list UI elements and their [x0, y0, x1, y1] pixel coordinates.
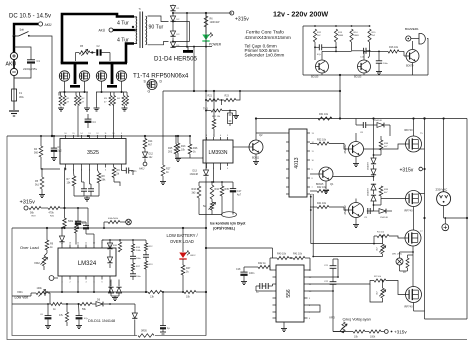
svg-text:R42 10k: R42 10k: [317, 186, 327, 189]
resistor R43: [406, 258, 409, 268]
wire LED to y292: [182, 275, 184, 292]
svg-text:470k: 470k: [49, 212, 55, 215]
capacitor C9: [367, 208, 369, 214]
wire bridge column: [172, 12, 174, 16]
wires below LM393: [206, 166, 208, 168]
wire multivib feed down: [339, 74, 341, 76]
transistor Q5 BD139 buzzer driver: [406, 50, 419, 63]
fuse F1: [12, 89, 17, 101]
diode D1 HER505: [170, 6, 175, 11]
resistor R28 56k: [97, 173, 101, 183]
svg-text:+315v: +315v: [20, 200, 36, 206]
svg-text:D1-D4 HER505: D1-D4 HER505: [154, 56, 198, 63]
resistor R36 4k7: [143, 139, 147, 149]
wire driver column joins: [374, 154, 382, 156]
svg-text:BD135: BD135: [354, 76, 362, 79]
switch S1: [14, 35, 19, 37]
resistor R13 680R: [334, 29, 337, 42]
diode D13 optional (inline): [203, 170, 208, 175]
svg-text:Q2: Q2: [259, 133, 263, 137]
resistor R42 10k: [317, 189, 329, 192]
wire Q2 emitter: [255, 154, 257, 160]
capacitor C29 47u: [76, 315, 83, 317]
wire bridge negative rail: [173, 46, 212, 48]
wire multivib top rail: [303, 25, 370, 27]
svg-text:IRF740: IRF740: [404, 128, 413, 132]
resistor R31 inline rail117: [318, 117, 332, 120]
556 pins right: [304, 269, 308, 271]
svg-text:AKÜ: AKÜ: [99, 29, 106, 33]
svg-text:4 Tur: 4 Tur: [117, 21, 129, 27]
svg-text:5k1: 5k1: [35, 184, 40, 187]
svg-text:IRF740: IRF740: [404, 209, 413, 213]
svg-text:R22 13k: R22 13k: [212, 116, 221, 118]
wire LED to negative rail: [205, 41, 207, 47]
556 pins left: [273, 269, 277, 271]
3525 pins top: [65, 135, 67, 139]
wire drain bus A (thick): [61, 62, 88, 65]
wire y292 rail: [45, 291, 148, 293]
trimpot VR4 5k: [210, 202, 213, 210]
gate resistors R1 R2: [59, 96, 62, 106]
capacitor C5 47u: [318, 44, 320, 50]
gate resistors R3 R4: [75, 96, 78, 106]
transistor Q7 2N2222 lower: [349, 203, 364, 218]
svg-text:3525: 3525: [87, 150, 99, 156]
op-amp U4 LM324: [58, 248, 116, 276]
svg-text:OVER LOAD: OVER LOAD: [170, 239, 194, 244]
wire cluster top: [102, 239, 146, 241]
wires 556 right outputs: [308, 276, 339, 278]
terminal pin8: [49, 276, 54, 281]
ground C28: [47, 319, 49, 324]
wire secondary top to bridge: [148, 16, 169, 22]
wire Q2 collector to 4013: [256, 132, 286, 134]
resonator C14: [228, 113, 233, 124]
svg-text:D5-D11 1N4148: D5-D11 1N4148: [88, 319, 115, 323]
node snubber mid: [90, 52, 96, 54]
lamp terminal X: [126, 219, 132, 225]
svg-text:0R05: 0R05: [141, 330, 147, 333]
wire multivib bottom rail: [303, 74, 428, 76]
svg-text:30A: 30A: [19, 95, 24, 99]
mosfet T2 RFP50N06: [79, 71, 89, 81]
svg-text:90 Tur: 90 Tur: [149, 25, 164, 31]
resistor R35 3k3: [220, 186, 224, 196]
resistor R12 2k2: [313, 29, 316, 42]
wire drive A to 3525: [77, 106, 79, 138]
svg-text:556: 556: [286, 289, 292, 298]
svg-text:100n: 100n: [383, 63, 389, 65]
wire x163 drop: [162, 91, 164, 165]
ground C7: [378, 70, 380, 72]
wire ground rail under 3525: [74, 195, 99, 197]
wire outlet down: [443, 119, 445, 192]
shunt resistor inline: [138, 334, 154, 338]
gate resistors R7 R8: [109, 96, 112, 106]
svg-text:VR1: VR1: [17, 290, 23, 294]
wire x340 segment: [339, 91, 341, 119]
svg-text:VR2: VR2: [34, 261, 40, 265]
wires gate resistor tops: [58, 92, 60, 96]
resistor R53 1k: [45, 240, 49, 250]
svg-text:BUZZER1: BUZZER1: [405, 27, 419, 31]
outer enclosure box: [7, 136, 467, 340]
svg-text:12v - 220v 200W: 12v - 220v 200W: [273, 10, 328, 19]
capacitor C22 100n/400v: [330, 281, 337, 283]
LED power (green): [202, 35, 209, 41]
wire transformer lower primary (thick): [126, 44, 134, 64]
resistor R64 10k T7 gate: [377, 234, 389, 237]
svg-text:100n: 100n: [249, 272, 255, 275]
svg-text:100k: 100k: [370, 336, 376, 339]
lamp DR1: [396, 258, 403, 265]
ground bridge negative (bar): [187, 47, 189, 50]
svg-text:560: 560: [34, 152, 39, 155]
terminal AKU+: [38, 22, 42, 26]
mosfet T4 RFP50N06: [116, 71, 126, 81]
wire T5 gate: [364, 144, 406, 149]
svg-text:+315v: +315v: [400, 168, 414, 174]
wire lm393 bias: [176, 157, 190, 159]
wire x135 drop: [134, 304, 136, 313]
trimpot VR1 100k: [36, 291, 48, 294]
wire multivib left rail: [302, 26, 304, 75]
mosfet T8 IRF740: [406, 287, 422, 303]
svg-text:3k3: 3k3: [192, 192, 197, 195]
capacitor C19 1n: [259, 283, 261, 289]
wire T6 source down: [413, 207, 415, 231]
svg-text:(OPSİYONEL): (OPSİYONEL): [213, 227, 235, 231]
transistor Q3 BD135: [316, 60, 329, 73]
svg-text:+315v: +315v: [394, 330, 407, 335]
svg-text:R31 10k: R31 10k: [319, 113, 329, 116]
wire R11 to LED: [205, 27, 207, 34]
svg-text:500k: 500k: [68, 220, 74, 223]
wire outlet to border: [444, 217, 467, 219]
resistor R19 5k1: [40, 177, 44, 189]
mosfet T1 RFP50N06: [59, 71, 69, 81]
svg-text:C18: C18: [236, 268, 241, 271]
resistor R67 10k inline: [184, 290, 196, 293]
svg-text:POWER: POWER: [209, 43, 222, 47]
svg-text:1N4007: 1N4007: [368, 161, 370, 169]
wire LM324 pin drops: [61, 280, 63, 293]
diode D19 1N4148: [379, 209, 386, 214]
resistor R32 10k: [317, 142, 329, 145]
transistor Q6 2N2222 upper: [349, 142, 364, 157]
wires 556 top: [270, 257, 277, 259]
ground bar A: [70, 85, 80, 88]
wire multivib cross: [336, 50, 352, 52]
resistor R41 10k: [317, 205, 329, 208]
resistor R37 10k: [176, 143, 180, 153]
4013 pins right: [307, 132, 310, 134]
resistor R21: [207, 98, 219, 101]
diode D2 HER505: [170, 16, 175, 21]
wire drain tap B (thick): [111, 63, 114, 84]
capacitor C4 47u: [85, 118, 92, 120]
resistor R48: [369, 330, 381, 333]
diode D14 1N4148: [377, 123, 384, 128]
wire top rail inner box: [12, 227, 206, 229]
ground gate C: [96, 107, 98, 109]
resistor R62: [80, 302, 92, 305]
svg-text:G: G: [148, 90, 151, 94]
svg-text:4013: 4013: [294, 157, 300, 168]
svg-text:IRF740: IRF740: [404, 305, 413, 309]
svg-text:R32 10k: R32 10k: [317, 139, 327, 142]
transistor Q2 BD911: [249, 140, 263, 154]
wire secondary bottom to bridge: [148, 42, 169, 45]
node battery junction: [13, 35, 16, 38]
diode D4 HER505: [170, 42, 175, 47]
capacitor C27: [143, 254, 149, 256]
resistor R27 10k below 3525: [72, 176, 76, 186]
resistor R11 120K/2W: [205, 13, 207, 16]
svg-text:2µ2: 2µ2: [58, 150, 63, 153]
capacitor C17 4u7: [230, 188, 236, 190]
wire right border: [466, 119, 468, 320]
terminal +315v bottom: [384, 330, 388, 334]
resistor R58: [144, 243, 147, 251]
balloon oval: [222, 212, 237, 218]
svg-text:R42 1k: R42 1k: [258, 262, 266, 265]
svg-text:T1-T4 RFP50N06x4: T1-T4 RFP50N06x4: [133, 73, 189, 80]
wire battery positive feed (thick): [14, 24, 38, 36]
resistor R29 5k: [112, 168, 116, 178]
svg-text:DR1 (7W): DR1 (7W): [392, 254, 402, 256]
resistor R50 470k: [48, 206, 60, 209]
wire drain bus B (thick): [99, 62, 127, 65]
capacitor C8: [362, 122, 364, 128]
wire Q5 collector to buzzer: [412, 41, 414, 49]
3525 pins bottom: [65, 164, 67, 168]
wire 4013 feed vertical A: [310, 194, 312, 244]
diode D8: [107, 257, 112, 263]
wire bridge AC input nodes: [172, 21, 174, 23]
capacitor C28 10u: [45, 315, 52, 317]
wire negative rail drop: [193, 47, 195, 91]
transformer TR1 primary winding lower 4 Tur: [135, 31, 138, 34]
mosfet T5 IRF740: [406, 136, 422, 152]
snubber capacitor C2 (electrolytic): [96, 49, 98, 55]
svg-text:R21: R21: [208, 95, 213, 98]
terminal +315v left: [24, 206, 28, 210]
wire bridge right vertical: [424, 119, 426, 320]
wire rail y91: [163, 90, 340, 92]
wire gate return rail: [313, 256, 382, 258]
capacitor C23 1u: [75, 220, 81, 222]
svg-text:AKÜ: AKÜ: [45, 23, 53, 27]
wire bridge cross link 2: [189, 22, 191, 42]
svg-text:Sekonder 1x0.8mm: Sekonder 1x0.8mm: [245, 53, 285, 58]
resistor R25 2K2: [174, 144, 178, 154]
wire y136 rail: [7, 135, 190, 137]
capacitor C20 1n: [265, 283, 267, 289]
resistor R60 1k: [182, 259, 184, 265]
wire x88 drop: [87, 208, 89, 228]
resistor R34: [210, 185, 214, 199]
resistor R14 680R: [350, 29, 353, 42]
wire T7 gate rail: [311, 243, 383, 245]
timer U5 556: [276, 265, 304, 322]
terminal AKU center tap: [109, 28, 113, 32]
capacitor C6 47u: [363, 48, 365, 54]
capacitor C10 2u2: [51, 147, 57, 149]
resistor R39 4k7: [379, 186, 383, 196]
diode D3 HER505: [170, 31, 175, 36]
wire capacitor C1 to minus: [14, 64, 31, 78]
diode D20: [59, 236, 64, 242]
ground gate B: [86, 107, 88, 109]
resistor R26 1k: [188, 144, 192, 154]
wire Q6 emitter: [355, 157, 357, 163]
ground C10: [53, 156, 55, 158]
wire rail x206 down lower: [205, 177, 207, 336]
ground gate D: [124, 107, 126, 109]
wire 556 to T8 gate net: [308, 281, 375, 285]
svg-text:Ferrite Core Trafo: Ferrite Core Trafo: [246, 30, 284, 36]
svg-text:R2 10k: R2 10k: [374, 276, 382, 278]
LM393 pins top: [206, 137, 208, 140]
resistor R38 4k7: [379, 140, 383, 150]
capacitor C18 100n: [240, 271, 247, 273]
LM393 pins bottom: [206, 163, 208, 166]
svg-text:R41 10k: R41 10k: [293, 253, 303, 256]
wire battery plus down (thick): [13, 36, 15, 52]
capacitor C24: [83, 225, 89, 227]
transformer TR1 core: [139, 12, 141, 49]
resistor R33 3k3: [197, 186, 201, 198]
ground D9 D10: [114, 296, 116, 298]
resistor R16 10k: [388, 50, 399, 53]
wire source rail B: [96, 91, 127, 93]
wire battery minus to fuse: [13, 76, 15, 89]
svg-text:100k: 100k: [37, 287, 43, 290]
diode D15 1N4007: [371, 158, 376, 164]
wire Q7 emitter: [355, 218, 357, 224]
trimpot VR3: [342, 322, 345, 333]
svg-text:VR3: VR3: [329, 316, 335, 320]
svg-text:DC 10.5 - 14.5v: DC 10.5 - 14.5v: [9, 14, 51, 20]
svg-text:C1: C1: [37, 59, 41, 63]
ground R17: [162, 180, 164, 182]
resistor R63 47k: [65, 312, 68, 322]
wires above LM324: [101, 240, 103, 245]
resistor R54: [75, 225, 78, 233]
resistor R18 560: [39, 146, 43, 157]
resistor R22 13k: [211, 109, 222, 112]
svg-text:Tr: Tr: [139, 7, 141, 11]
wire output box bottom: [425, 318, 468, 320]
svg-text:2K2: 2K2: [168, 151, 173, 154]
gate resistors R9 R10: [122, 96, 125, 106]
svg-text:680R: 680R: [354, 35, 360, 37]
resistor R61: [51, 302, 62, 305]
ground C30: [162, 329, 164, 332]
wire fuse to ground: [13, 101, 15, 110]
svg-text:BD135: BD135: [311, 76, 319, 79]
trimpot VR5 T7: [381, 244, 384, 254]
svg-text:400k/500k: 400k/500k: [108, 218, 119, 220]
capacitor C11a: [81, 188, 87, 190]
svg-text:LM324: LM324: [78, 261, 97, 267]
svg-text:230 VAC: 230 VAC: [436, 188, 449, 192]
wire Q6 collector: [355, 133, 357, 142]
wire R64 to T7 gate: [389, 236, 405, 238]
battery AKU cell -: [10, 68, 17, 75]
resistor R59: [144, 261, 147, 269]
resistor R44 10k: [277, 256, 289, 259]
diode D6: [96, 302, 103, 307]
svg-text:+315v: +315v: [235, 17, 249, 23]
mosfet T7 IRF740: [405, 230, 421, 246]
ground C14: [235, 114, 237, 116]
ground bar B: [107, 85, 117, 88]
diode D18 1N4007: [371, 195, 376, 201]
diode D10: [116, 287, 121, 293]
resistor R65 10k T8 gate: [374, 279, 386, 282]
diode D7: [107, 243, 112, 249]
ground under 3525: [86, 197, 88, 199]
wire bottom rail y304: [12, 303, 51, 305]
wire rail117: [256, 118, 467, 120]
resistor R46 1k: [258, 265, 270, 268]
wire R18 bottom: [41, 157, 60, 169]
resistor R66 13k inline: [148, 290, 162, 293]
svg-text:4µ7: 4µ7: [237, 194, 242, 197]
wire rail x206 down: [205, 13, 207, 170]
wire switch to control rail: [29, 36, 52, 136]
capacitor C25 100n: [130, 255, 136, 257]
resistor R17 1k inline: [161, 165, 165, 176]
resistor R57 47k: [131, 263, 134, 271]
svg-text:100n: 100n: [136, 276, 142, 278]
wire T8 drain: [412, 285, 415, 288]
resistor R15 2k2: [368, 29, 371, 42]
pwm U1 3525: [60, 139, 126, 165]
svg-text:1N4148: 1N4148: [380, 217, 388, 219]
wire multivib output: [364, 50, 379, 52]
wire source rail A: [59, 91, 88, 93]
svg-text:LED2: LED2: [190, 255, 196, 257]
wire VR5 bottom: [382, 254, 384, 257]
ground C18: [243, 280, 245, 282]
terminal +315v top: [230, 11, 234, 15]
wire 4013 feed vertical B: [312, 194, 314, 257]
mosfet T6 IRF740: [406, 191, 422, 207]
svg-text:R1 10k: R1 10k: [377, 232, 385, 234]
wire VR6 bottom: [370, 284, 383, 302]
svg-text:R40 10k: R40 10k: [277, 253, 287, 256]
LM324 pins top: [61, 245, 63, 249]
svg-text:Çıkış Voltaj ayarı: Çıkış Voltaj ayarı: [343, 318, 372, 322]
svg-text:Q1: Q1: [330, 182, 334, 186]
svg-text:2200µ/35v: 2200µ/35v: [23, 67, 38, 71]
resistor R55 100k: [118, 242, 121, 252]
transformer TR1 secondary winding 90 Tur: [146, 16, 147, 20]
svg-text:R35: R35: [225, 188, 230, 191]
svg-text:4k7: 4k7: [148, 144, 153, 147]
wire Q7 collector: [355, 199, 357, 203]
ground battery return: [9, 110, 19, 112]
resistor R45 10k: [293, 256, 305, 259]
svg-text:4 Tur: 4 Tur: [117, 38, 129, 44]
ground R19: [41, 193, 43, 195]
resistor R52 400k: [108, 220, 120, 223]
wire T8 source bottom: [413, 303, 415, 312]
